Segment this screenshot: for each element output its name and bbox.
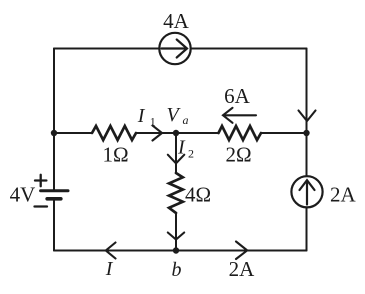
wire left lower — [53, 200, 55, 250]
svg-text:1Ω: 1Ω — [102, 143, 128, 167]
node b — [173, 247, 179, 253]
wire 4ohm to b — [175, 213, 177, 251]
wire left upper — [53, 49, 55, 190]
resistor R 2ohm zigzag — [219, 126, 262, 140]
node left — [51, 130, 57, 136]
wire middle right — [261, 132, 307, 134]
current source 4A arrow — [162, 40, 188, 58]
current arrow right-branch (down) — [299, 111, 316, 122]
current arrow 6A (left) — [223, 108, 256, 123]
current source 2A circle — [291, 176, 322, 207]
battery 4V plate long — [41, 189, 68, 192]
wire right lower — [306, 208, 308, 251]
wire bottom — [54, 250, 307, 252]
battery plus sign — [35, 175, 46, 186]
svg-text:1: 1 — [150, 115, 156, 129]
current arrow I2 (down from Va) — [168, 155, 185, 164]
svg-text:V: V — [167, 104, 182, 126]
battery minus sign — [35, 205, 48, 207]
wire middle left — [54, 132, 92, 134]
current arrow 2A (bottom, right) — [236, 242, 247, 260]
node right — [303, 130, 309, 136]
battery 4V plate short — [47, 197, 61, 201]
resistor R 4ohm zigzag (vertical) — [169, 173, 183, 213]
svg-text:a: a — [183, 113, 189, 127]
svg-text:I: I — [177, 137, 186, 159]
svg-text:2Ω: 2Ω — [225, 143, 251, 167]
svg-text:4Ω: 4Ω — [185, 183, 211, 207]
svg-text:4A: 4A — [163, 9, 190, 33]
svg-text:4V: 4V — [10, 183, 36, 207]
current arrow 4ohm branch (down, above b) — [168, 233, 184, 240]
node Va — [173, 130, 179, 136]
current arrow I (bottom, left) — [106, 243, 116, 259]
current source 2A arrow — [300, 180, 315, 204]
resistor R 1ohm zigzag — [92, 126, 136, 140]
wire top — [54, 48, 160, 50]
svg-text:2A: 2A — [229, 257, 256, 281]
svg-text:2: 2 — [188, 147, 194, 161]
wire Va down — [175, 133, 177, 173]
svg-text:6A: 6A — [224, 84, 251, 108]
wire middle center — [136, 132, 219, 134]
current arrow I1 (on middle wire, right) — [153, 126, 163, 141]
svg-text:I: I — [137, 105, 146, 127]
wire top right segment — [191, 48, 307, 50]
current source 4A circle — [159, 33, 190, 64]
svg-text:I: I — [105, 258, 114, 280]
svg-text:b: b — [172, 259, 182, 281]
svg-text:2A: 2A — [330, 183, 357, 207]
wire right upper — [306, 49, 308, 177]
